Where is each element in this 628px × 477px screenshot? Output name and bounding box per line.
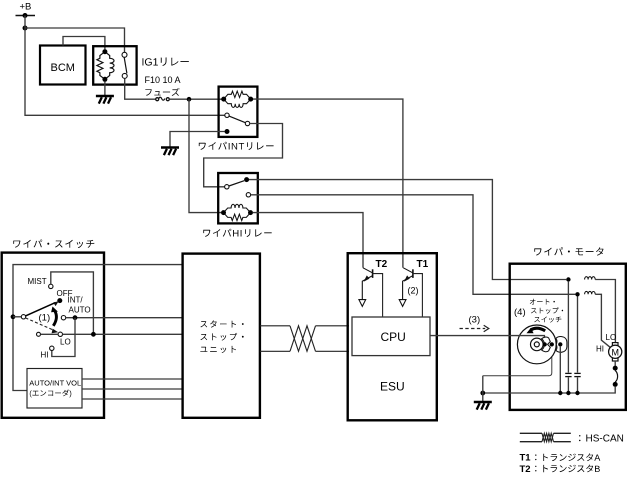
wire MIST to LO output: [51, 272, 94, 334]
T1 emitter arrow: [399, 300, 406, 307]
cam hub: [531, 338, 544, 351]
wire ground rail down: [482, 376, 484, 402]
cam lobe contact: [542, 337, 551, 352]
wire encoder out 3: [82, 398, 182, 400]
wire CPU to auto-stop switch: [430, 336, 544, 343]
wire IG1 switch to fuse: [125, 79, 156, 100]
svg-text:ESU: ESU: [380, 380, 405, 394]
wire HS-CAN low left: [260, 350, 290, 352]
rotary pivot contact: [21, 315, 25, 319]
HS-CAN twisted pair: [290, 326, 316, 352]
wire HS-CAN high right: [316, 325, 350, 327]
motor brush bottom: [612, 357, 618, 361]
label wiper switch title: [13, 240, 94, 249]
transistor T2: [372, 269, 374, 278]
INT relay coil: [224, 91, 251, 99]
contact MIST: [49, 284, 53, 288]
wire IG1 coil to ground: [104, 82, 106, 96]
start-stop unit box: [183, 254, 260, 418]
T2 emitter arrow: [359, 300, 366, 307]
wire T2 base to CPU: [373, 274, 383, 317]
wire INT NC contact to ground: [170, 132, 225, 148]
wire LO output: [63, 333, 183, 335]
node C2 bus: [575, 391, 579, 395]
svg-text:HS-CAN: HS-CAN: [586, 434, 624, 445]
wire BCM to IG1 coil: [63, 37, 105, 50]
rotation arrow (1): [53, 311, 56, 326]
node +B junction: [23, 13, 28, 18]
node INT/AUTO junction: [73, 315, 78, 320]
BCM U1: [40, 46, 86, 85]
wire INT coil to T1 collector: [253, 99, 403, 268]
wire blob contact down: [559, 347, 561, 393]
wire HI coil to T2 collector: [253, 213, 363, 268]
wire switch feed bus: [13, 265, 182, 317]
wire HI common to wiper motor HI winding: [251, 195, 576, 294]
label auto-stop line1: [530, 299, 555, 305]
IG1 relay switch contacts: [122, 52, 127, 57]
node fuse junction: [187, 97, 192, 102]
wire encoder out 2: [82, 388, 182, 390]
wire auto-stop contact to ground rail: [483, 347, 552, 376]
svg-text:BCM: BCM: [51, 62, 75, 74]
svg-text:T2: T2: [520, 464, 531, 475]
wire INT switch to HI switch: [204, 124, 283, 187]
node cam contact 1: [543, 342, 547, 346]
wire HS-CAN high left: [260, 325, 290, 327]
svg-text:T2: T2: [376, 259, 388, 270]
svg-text:+B: +B: [20, 2, 32, 13]
IG1 relay coil: [97, 52, 105, 80]
contact INT/AUTO: [61, 316, 65, 320]
label wiper motor title: [534, 247, 603, 255]
svg-text:AUTO/INT VOL: AUTO/INT VOL: [29, 379, 81, 388]
label fuse: [145, 88, 179, 96]
brush contact blob: [556, 337, 567, 353]
wire fuse to INT coil: [169, 98, 222, 100]
transistor T1: [412, 269, 414, 278]
HI relay NO contact node: [244, 177, 249, 182]
node LO junction: [91, 332, 96, 337]
ground wiper motor: [474, 401, 492, 403]
node LO winding junction: [566, 277, 570, 281]
contact LO left: [37, 332, 41, 336]
svg-text:LO: LO: [606, 333, 617, 342]
wire INT/AUTO output: [66, 317, 183, 319]
wire LO pair: [41, 333, 59, 335]
dashed arm to LO: [26, 318, 55, 331]
rotary switch arm: [26, 303, 56, 316]
svg-text:LO: LO: [60, 338, 71, 347]
wire pivot stub: [13, 316, 21, 318]
svg-text:HI: HI: [41, 351, 49, 360]
wire +B to IG1 relay switch: [25, 28, 125, 52]
slip contact curve: [615, 371, 617, 383]
INT relay NC contact node: [225, 129, 230, 134]
svg-text:(3): (3): [469, 314, 481, 325]
label IG1 relay: [143, 58, 189, 66]
label wiper INT relay: [199, 142, 274, 150]
wire T1 base to CPU: [413, 274, 423, 317]
dashed arrow (3): [460, 328, 486, 330]
svg-text:T1: T1: [417, 259, 429, 270]
HI relay coil: [224, 213, 251, 221]
svg-text:(1): (1): [39, 313, 51, 324]
capacitor C1: [567, 282, 569, 373]
svg-text:HI: HI: [596, 345, 604, 354]
ground IG1: [96, 95, 114, 97]
label wiper HI relay: [203, 229, 271, 237]
svg-text:T1: T1: [520, 453, 532, 464]
wire encoder out 1: [82, 378, 182, 380]
label HS-CAN: [579, 435, 581, 441]
node cam contact 2: [550, 342, 554, 346]
node blob bus: [558, 391, 562, 395]
wire HS-CAN low right: [316, 350, 350, 352]
node motor lower 1: [613, 366, 618, 371]
inductor LO winding: [585, 277, 596, 280]
svg-text:INT/: INT/: [68, 296, 84, 305]
CPU box: [352, 317, 430, 356]
inductor HI winding: [585, 291, 596, 294]
capacitor C2: [577, 297, 579, 373]
label auto-stop line3: [534, 317, 561, 323]
node HI winding junction: [575, 292, 579, 296]
svg-text:(2): (2): [408, 285, 419, 295]
legend twisted pair symbol: [520, 432, 542, 434]
node motor lower 2: [613, 382, 618, 387]
wiper switch box: [2, 253, 104, 418]
wiper HI relay box: [218, 173, 258, 223]
ESU box: [348, 253, 437, 420]
node feed pivot: [11, 314, 16, 319]
svg-text:M: M: [612, 347, 620, 357]
cam rotation arrow: [531, 328, 546, 331]
wire motor to ground bus: [483, 387, 615, 393]
contact LO: [58, 332, 62, 336]
fuse F10: [156, 98, 159, 101]
IG1 relay box: [93, 46, 136, 84]
node C1 bus: [566, 391, 570, 395]
contact HI: [50, 346, 54, 350]
svg-text:(4): (4): [514, 307, 526, 318]
INT relay switch: [225, 113, 229, 117]
svg-text:CPU: CPU: [381, 330, 406, 344]
svg-text:F10 10 A: F10 10 A: [145, 75, 181, 85]
motor M1: [609, 345, 622, 358]
wiper motor box: [510, 264, 626, 410]
wire feed bus to encoder: [13, 317, 27, 391]
contact OFF node: [57, 298, 62, 303]
HI relay switch: [225, 185, 229, 189]
svg-text:AUTO: AUTO: [69, 306, 91, 315]
wire +B down-left rail to wiper INT relay switch: [25, 28, 225, 115]
wire junction down to HI relay coil: [189, 99, 221, 212]
motor brush top: [612, 343, 618, 347]
node cam contact 3: [558, 342, 562, 346]
wire HI to INT/AUTO junction: [52, 318, 75, 357]
HI relay common contact: [246, 193, 250, 197]
wiper INT relay box: [219, 87, 258, 137]
label auto-stop line2: [531, 307, 563, 313]
wire LO winding to motor: [595, 280, 615, 344]
ground INT relay: [161, 146, 179, 148]
wire HI winding to motor: [595, 294, 610, 347]
wire HI NO contact to wiper motor LO winding: [249, 180, 566, 280]
auto-stop switch cam disc: [517, 325, 556, 364]
label start-stop unit: [200, 320, 243, 327]
wire motor to slip contact: [614, 361, 616, 366]
wire +B vertical: [24, 16, 26, 29]
svg-text:MIST: MIST: [28, 277, 47, 286]
encoder box AUTO/INT VOL: [27, 369, 82, 409]
node ground bus junction: [480, 391, 485, 396]
